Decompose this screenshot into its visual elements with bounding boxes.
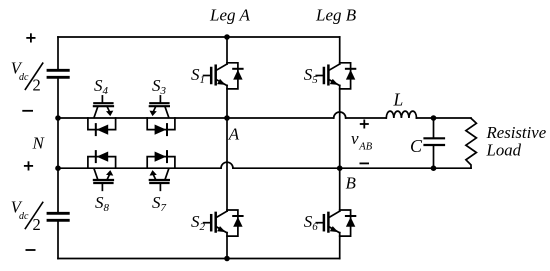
wire left rail N segment	[57, 118, 59, 168]
bidirectional switch S4	[88, 96, 116, 135]
wire inductor to load corner	[416, 117, 471, 119]
node top rail leg A	[224, 34, 230, 40]
wire row1 hop to inductor	[346, 117, 386, 119]
wire left rail below row2 to C2	[57, 168, 59, 212]
inductor L	[386, 111, 416, 118]
wire load bottom to row2	[434, 167, 472, 169]
svg-text:AB: AB	[358, 142, 372, 153]
node filter cap top	[431, 115, 437, 121]
capacitor C plates	[425, 138, 445, 145]
label plus lower left	[24, 161, 33, 170]
svg-text:Load: Load	[486, 141, 522, 160]
label minus bottom left	[26, 249, 36, 251]
IGBT S1	[204, 63, 243, 89]
node A junction	[224, 115, 230, 121]
wire bottom rail	[58, 258, 340, 260]
node filter cap bottom	[431, 165, 437, 171]
label Resistive Load	[486, 123, 547, 160]
IGBT S2	[204, 210, 243, 236]
label plus top left	[26, 33, 35, 42]
capacitor Vdc/2 top (C1 plates)	[48, 70, 68, 77]
label plus vAB	[360, 120, 369, 129]
node left rail row1	[55, 115, 61, 121]
svg-text:B: B	[346, 174, 357, 193]
label Vdc/2 bottom	[11, 198, 43, 234]
svg-text:L: L	[393, 90, 404, 110]
svg-text:C: C	[410, 136, 423, 156]
wire row1 left rail to node A to leg B hop	[58, 117, 334, 119]
wire leg A middle	[226, 85, 228, 211]
svg-text:2: 2	[33, 76, 41, 95]
wire leg B upper	[339, 37, 341, 64]
IGBT S6	[316, 210, 355, 236]
resistor Resistive Load	[466, 118, 477, 168]
bidirectional switch S7	[147, 151, 175, 190]
wire top rail	[58, 36, 340, 38]
node bottom rail leg A	[224, 256, 230, 262]
wire row2 hop to node B and C	[233, 167, 434, 169]
node B junction	[337, 165, 343, 171]
wire hop over leg A	[221, 162, 233, 168]
bidirectional switch S8	[88, 151, 116, 190]
svg-text:v: v	[351, 129, 359, 148]
svg-text:2: 2	[33, 215, 41, 234]
svg-text:dc: dc	[19, 72, 29, 83]
svg-text:A: A	[228, 125, 240, 144]
wire leg B middle	[339, 85, 341, 211]
wire left rail upper segment	[57, 37, 59, 69]
svg-text:dc: dc	[19, 211, 29, 222]
wire leg A upper	[226, 37, 228, 64]
node left rail row2	[55, 165, 61, 171]
capacitor C lower lead	[433, 146, 435, 168]
capacitor Vdc/2 bottom (C2 plates)	[48, 213, 68, 220]
svg-text:Resistive: Resistive	[486, 123, 547, 142]
svg-text:Leg B: Leg B	[315, 6, 357, 25]
svg-text:N: N	[32, 134, 46, 153]
IGBT S5	[316, 63, 355, 89]
wire left rail lower segment	[57, 222, 59, 259]
wire left rail between C1 and node row1	[57, 79, 59, 118]
wire hop over leg B	[334, 112, 346, 118]
bidirectional switch S3	[147, 96, 175, 135]
wire leg B lower	[339, 233, 341, 259]
label Vdc/2 top	[11, 58, 43, 94]
label minus upper left	[22, 110, 33, 112]
capacitor C upper lead	[433, 118, 435, 137]
wire leg A lower	[226, 233, 228, 259]
wire row2 left rail to leg A hop	[58, 167, 221, 169]
label minus vAB	[360, 162, 370, 164]
svg-text:Leg A: Leg A	[209, 6, 250, 25]
